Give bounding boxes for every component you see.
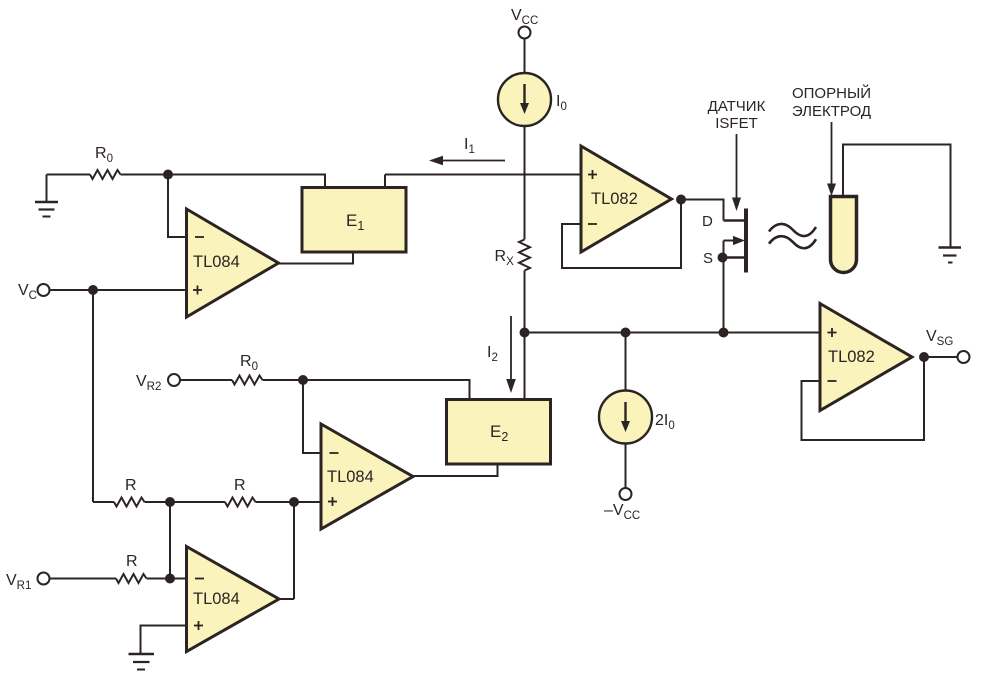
junction J6 bbox=[165, 574, 175, 584]
terminal VR1 bbox=[38, 573, 50, 585]
node S dot bbox=[718, 253, 728, 263]
svg-text:ДАТЧИК: ДАТЧИК bbox=[708, 98, 766, 115]
svg-text:–VCC: –VCC bbox=[604, 502, 640, 522]
wire bus row bbox=[525, 332, 821, 334]
minus sign U1 bbox=[195, 236, 204, 238]
controlled source E2 bbox=[447, 400, 551, 465]
wire J3 to U3 inverting input bbox=[303, 380, 321, 453]
op-amp U5 TL082 bbox=[820, 304, 912, 411]
svg-text:I0: I0 bbox=[556, 93, 567, 113]
current arrow I2 bbox=[506, 316, 516, 393]
controlled source E1 bbox=[302, 188, 406, 253]
terminal VSG bbox=[958, 351, 970, 363]
plus sign U2 bbox=[588, 170, 597, 179]
svg-text:TL082: TL082 bbox=[828, 348, 875, 366]
ISFET channel bar bbox=[744, 209, 748, 273]
op-amp U2 TL082 bbox=[581, 146, 672, 252]
svg-text:R: R bbox=[234, 477, 246, 494]
wire bus to E2 top pin bbox=[524, 333, 526, 401]
wire ground to R0 bbox=[47, 174, 91, 176]
svg-text:VC: VC bbox=[18, 282, 37, 302]
wire U2 feedback loop bbox=[562, 200, 681, 269]
ISFET substrate arrow bbox=[724, 236, 746, 258]
terminal VR2 bbox=[168, 374, 180, 386]
plus sign U5 bbox=[828, 328, 837, 337]
wire U5 output to VSG bbox=[924, 356, 958, 358]
minus sign U3 bbox=[330, 452, 339, 454]
junction bus 2I0 bbox=[621, 328, 631, 338]
wire J5 to U4 output bbox=[293, 502, 295, 599]
ground G3 bbox=[129, 654, 155, 670]
junction J3 bbox=[298, 375, 308, 385]
junction bus S bbox=[719, 328, 729, 338]
wire R0 to E1 top-left pin bbox=[121, 175, 326, 188]
resistor R left bbox=[114, 498, 145, 507]
wire R0 to E2 top-left pin bbox=[263, 380, 470, 400]
wire electrode to ground bbox=[843, 145, 951, 248]
svg-text:VR1: VR1 bbox=[6, 572, 31, 592]
op-amp U1 TL084 bbox=[187, 209, 279, 317]
wire U4 plus to ground bbox=[141, 626, 187, 655]
wire I0 to RX bbox=[524, 126, 526, 240]
current source I0 bbox=[498, 73, 551, 126]
svg-text:ISFET: ISFET bbox=[715, 115, 758, 132]
junction J5 bbox=[289, 497, 299, 507]
resistor R0 VR2 bbox=[232, 376, 263, 385]
minus sign U5 bbox=[828, 380, 837, 382]
junction J2 bbox=[88, 285, 98, 295]
node U5 output dot bbox=[919, 352, 929, 362]
ground G1 bbox=[35, 175, 58, 217]
svg-text:TL084: TL084 bbox=[193, 590, 240, 608]
wire 2I0 to -VCC bbox=[625, 444, 627, 488]
junction J1 bbox=[163, 170, 173, 180]
svg-text:TL082: TL082 bbox=[591, 190, 638, 208]
wire R to U3 plus input bbox=[256, 501, 322, 503]
wire 2I0 from bus bbox=[625, 333, 627, 391]
minus sign U2 bbox=[588, 223, 597, 225]
current source 2I0 bbox=[599, 391, 652, 444]
svg-text:RX: RX bbox=[495, 248, 515, 268]
resistor R mid bbox=[225, 498, 256, 507]
plus sign U1 bbox=[193, 286, 202, 295]
svg-text:S: S bbox=[703, 250, 713, 267]
wire E2 bottom to U3 output bbox=[413, 464, 498, 476]
label DATCHIK ISFET bbox=[708, 98, 766, 132]
junction bus RX bbox=[520, 328, 530, 338]
wire node A to TL082 plus input bbox=[385, 174, 581, 176]
svg-text:R0: R0 bbox=[95, 145, 113, 165]
wavy line lower bbox=[769, 236, 816, 248]
svg-text:R: R bbox=[126, 553, 138, 570]
minus sign U4 bbox=[195, 578, 204, 580]
svg-text:VSG: VSG bbox=[926, 328, 953, 348]
svg-text:R0: R0 bbox=[240, 353, 258, 373]
ISFET drain stub bbox=[724, 219, 745, 222]
node U2 output dot bbox=[676, 195, 686, 205]
wire E1 top-right pin bbox=[384, 175, 386, 188]
plus sign U4 bbox=[194, 621, 203, 630]
resistor R VR1 bbox=[116, 574, 147, 583]
arrow to electrode bbox=[827, 122, 836, 196]
resistor RX bbox=[519, 240, 530, 271]
svg-text:ОПОРНЫЙ: ОПОРНЫЙ bbox=[792, 84, 871, 102]
wire J2 down to R row bbox=[92, 290, 94, 502]
svg-text:2I0: 2I0 bbox=[655, 412, 675, 432]
svg-text:ЭЛЕКТРОД: ЭЛЕКТРОД bbox=[792, 103, 871, 120]
wire J1 to U1 inverting input bbox=[168, 175, 187, 238]
ground G2 bbox=[939, 248, 962, 263]
wire R to U4 inverting input bbox=[147, 578, 187, 580]
wire VR2 to R0 bbox=[180, 379, 232, 381]
svg-text:D: D bbox=[702, 213, 713, 230]
plus sign U3 bbox=[328, 497, 337, 506]
label OPORNY ELEKTROD bbox=[792, 84, 871, 120]
wire E1 bottom to U1 output bbox=[279, 252, 353, 264]
reference electrode tube bbox=[831, 197, 857, 273]
wire R to R bbox=[145, 501, 226, 503]
terminal -VCC bbox=[620, 488, 632, 500]
wire RX to bus bbox=[524, 271, 526, 333]
wire S to bus bbox=[723, 258, 725, 333]
wire VR1 to R bbox=[50, 578, 117, 580]
wire VC to U1 plus input bbox=[50, 289, 187, 291]
wire U4 output bbox=[279, 598, 294, 600]
terminal VCC bbox=[519, 27, 531, 39]
svg-text:I2: I2 bbox=[487, 344, 498, 364]
svg-text:TL084: TL084 bbox=[327, 468, 374, 486]
svg-text:I1: I1 bbox=[464, 136, 475, 156]
op-amp U3 TL084 bbox=[321, 424, 413, 529]
current arrow I1 bbox=[429, 156, 505, 166]
wire J4 to VR1 row bbox=[169, 502, 171, 579]
svg-text:TL084: TL084 bbox=[193, 253, 240, 271]
resistor R0 top-left bbox=[90, 170, 121, 179]
svg-text:VR2: VR2 bbox=[136, 373, 161, 393]
wire VCC to I0 bbox=[524, 39, 526, 74]
op-amp U4 TL084 bbox=[187, 547, 280, 652]
junction J4 bbox=[165, 497, 175, 507]
svg-text:VCC: VCC bbox=[511, 7, 538, 27]
terminal VC bbox=[38, 284, 50, 296]
svg-text:R: R bbox=[125, 477, 137, 494]
wire R row left bbox=[93, 501, 114, 503]
wire U2 output to drain D bbox=[681, 200, 724, 221]
wavy line upper bbox=[769, 224, 816, 236]
arrow to ISFET gate bbox=[732, 134, 741, 211]
ISFET source stub bbox=[724, 256, 745, 259]
wire U5 feedback loop bbox=[802, 357, 925, 440]
